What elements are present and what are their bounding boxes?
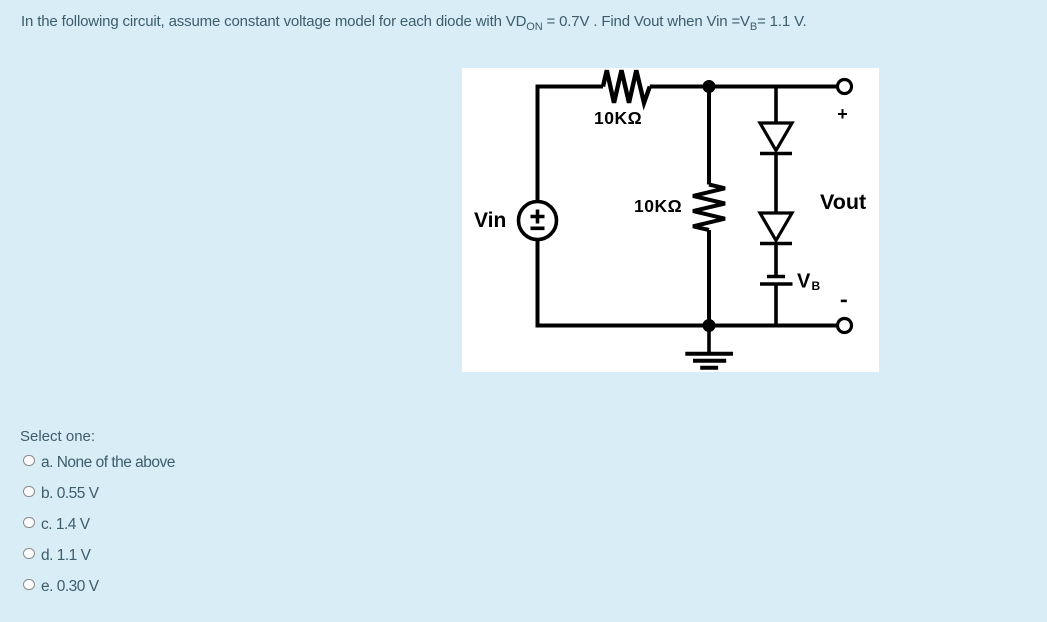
node B (bottom junction dot) (703, 319, 716, 332)
wire between diode D2 and battery VB (774, 244, 778, 277)
node A (top junction dot) (703, 80, 716, 93)
wire from battery VB to bottom wire (774, 284, 778, 326)
resistor R2 10KΩ (vertical zigzag) (693, 185, 725, 231)
option c (23, 516, 90, 534)
wire left vertical (Vin branch) (536, 87, 540, 326)
wire middle vertical from node A to resistor R2 (707, 87, 711, 185)
option a (23, 454, 175, 472)
option d (23, 547, 90, 565)
ground (685, 326, 733, 368)
wire top from R1 to node A and output terminal (650, 85, 838, 89)
wire middle vertical from R2 to node B (707, 230, 711, 326)
option e (23, 578, 99, 596)
wire bottom from Vin branch to node B and output terminal (536, 324, 838, 326)
svg-text:Vin: Vin (474, 209, 506, 232)
label - (output polarity) (841, 300, 847, 303)
svg-text:10KΩ: 10KΩ (634, 196, 682, 216)
diode D1 (760, 123, 792, 154)
resistor R1 10KΩ (horizontal zigzag) (603, 70, 650, 103)
diode D2 (760, 213, 792, 244)
svg-text:Vout: Vout (820, 190, 866, 214)
svg-text:B: B (812, 279, 821, 293)
svg-text:10KΩ: 10KΩ (594, 108, 642, 128)
output terminal top (838, 80, 852, 94)
circuit white panel (462, 68, 879, 372)
svg-text:+: + (837, 104, 848, 124)
option b (23, 485, 99, 503)
wire top from corner to resistor R1 (536, 85, 604, 89)
wire between diode D1 and diode D2 (774, 154, 778, 214)
svg-text:V: V (797, 271, 811, 293)
output terminal bottom (838, 319, 852, 333)
battery VB plates (760, 277, 793, 285)
voltage source Vin (519, 202, 557, 240)
wire diode branch top (774, 87, 778, 124)
